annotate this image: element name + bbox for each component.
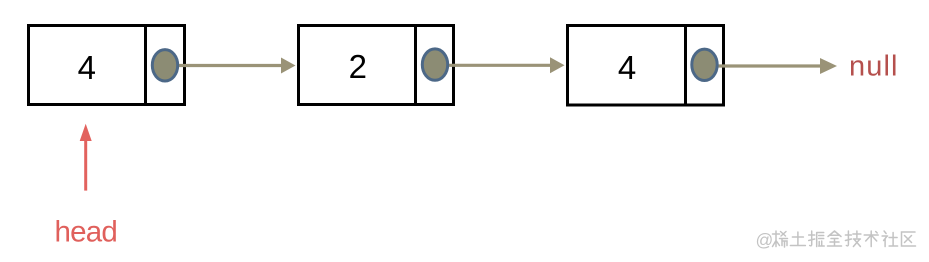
node 2 value 2 — [349, 48, 367, 85]
node 1 box — [29, 26, 185, 105]
node 3 pointer circle — [692, 49, 717, 80]
node 3 divider — [684, 26, 687, 106]
arrow node3 to null — [716, 58, 837, 74]
arrow node2 to node3 — [447, 57, 565, 73]
node 3 value 4 — [618, 49, 636, 86]
svg-text:4: 4 — [78, 49, 96, 86]
金 — [828, 231, 842, 246]
watermark @稀土掘金技术社区 — [756, 230, 916, 250]
术 — [864, 231, 878, 247]
label null — [849, 51, 899, 83]
区 — [902, 232, 916, 246]
svg-text:2: 2 — [349, 48, 367, 85]
head arrow — [80, 124, 92, 191]
稀 — [773, 231, 788, 247]
svg-text:@: @ — [756, 230, 774, 250]
土 — [790, 232, 805, 246]
node 2 divider — [414, 26, 417, 105]
arrow node1 to node2 — [177, 58, 296, 74]
svg-text:null: null — [849, 51, 899, 83]
node 1 pointer circle — [152, 50, 177, 81]
svg-text:4: 4 — [618, 49, 636, 86]
node 2 pointer circle — [422, 49, 447, 80]
社 — [882, 231, 898, 247]
node 3 box — [568, 26, 724, 106]
svg-text:head: head — [55, 216, 117, 249]
label head — [55, 216, 117, 249]
node 2 box — [299, 26, 454, 105]
掘 — [809, 231, 825, 247]
node 1 divider — [144, 26, 147, 105]
node 1 value 4 — [78, 49, 96, 86]
技 — [845, 231, 861, 247]
